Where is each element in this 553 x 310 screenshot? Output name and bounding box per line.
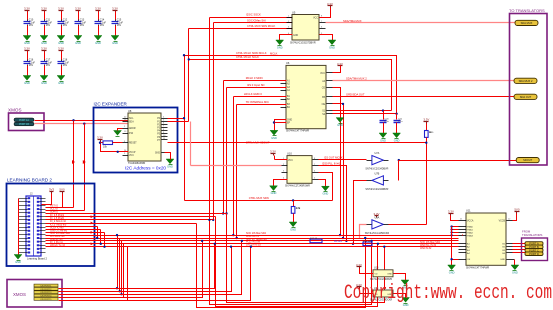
pin A3 of U6 <box>281 86 291 89</box>
svg-text:TMA1: TMA1 <box>467 229 474 232</box>
wire U6 to translator port 2 <box>333 80 515 82</box>
wire power to R15 <box>426 124 428 131</box>
svg-text:GND: GND <box>112 41 118 45</box>
svg-text:GND: GND <box>290 227 296 231</box>
svg-text:3.3V: 3.3V <box>24 46 30 50</box>
svg-text:SN74LVC2G34DBVR: SN74LVC2G34DBVR <box>365 188 388 191</box>
wire VCCA power <box>451 216 459 221</box>
ground for capacitor C13 <box>74 36 82 45</box>
IC U14 body <box>373 290 393 297</box>
ground at U5 pin5 <box>328 40 336 49</box>
svg-text:OE: OE <box>467 259 471 261</box>
resistor R16 4.7k <box>291 207 301 214</box>
pin A4 of U6 <box>322 80 332 83</box>
junction xmos 1 <box>214 243 216 245</box>
junction VCCP <box>117 151 119 153</box>
connector J2 center line <box>33 197 35 257</box>
wire MCLK 0 SDIN to U6 <box>224 80 287 82</box>
power flag for capacitor C18 3.3V <box>58 46 64 52</box>
power flag for U11 VCCA 3.3V <box>448 209 454 215</box>
resistor R15 1k <box>425 131 433 138</box>
wire U11 GND right <box>514 260 516 266</box>
connector J2 pin pair 6 <box>19 215 46 217</box>
junction CE bus <box>339 234 341 236</box>
ground for capacitor C15 <box>111 36 119 45</box>
wire to resistor R14 <box>101 142 104 144</box>
wire w5 route low <box>210 220 372 305</box>
junction bus1 <box>232 234 234 236</box>
svg-text:GND: GND <box>287 120 292 122</box>
svg-text:SDA MUX: SDA MUX <box>521 21 533 25</box>
wire U11 Y4 to port <box>513 252 526 254</box>
power flag for R15 3.3V <box>423 117 429 123</box>
svg-text:GND: GND <box>75 41 81 45</box>
junction w4 bus <box>377 243 379 245</box>
pin 5 of U10 <box>313 177 319 179</box>
XMOS bottom block border <box>7 280 62 308</box>
connector J2 body <box>26 196 41 256</box>
power flag for U6 3.3V <box>337 62 343 68</box>
wire I2S0 Input SD to U6 <box>227 87 287 89</box>
pin 4 of U5 <box>287 33 293 35</box>
wire IO_0.5 Pin19 <box>46 216 216 218</box>
pin VCC of U6 <box>320 73 332 75</box>
junction U7B bus <box>352 243 354 245</box>
svg-text:GND: GND <box>449 270 455 274</box>
wire U5 GND left <box>280 35 293 41</box>
wire TD INTERNAL MIC to U6 <box>237 104 287 106</box>
wire xmos I2S 3 <box>59 241 242 295</box>
power flag for U13 3.3V <box>356 263 362 269</box>
svg-text:U13: U13 <box>374 267 379 270</box>
resistor R14 10k <box>103 141 113 149</box>
svg-text:16V: 16V <box>46 64 51 67</box>
pin 22 SCL of U8 <box>123 116 135 120</box>
junction SCL <box>72 119 74 121</box>
pin 1 of U10 <box>282 158 288 160</box>
svg-text:GND: GND <box>58 81 64 85</box>
TO TRANSLATORS border <box>510 14 548 166</box>
svg-text:PORT 1A: PORT 1A <box>19 119 29 122</box>
connector J3 row 2 <box>34 287 58 290</box>
svg-text:Learning Board 2: Learning Board 2 <box>27 256 47 260</box>
junction riser x188 <box>188 58 190 60</box>
buffer U7B U7B <box>365 172 388 190</box>
junction bus drop a top <box>116 234 118 236</box>
svg-text:GND: GND <box>95 41 101 45</box>
wire bus drop a <box>117 236 119 289</box>
wire U6 OE down to bus <box>333 104 344 239</box>
connector J1 row 1 <box>14 118 34 122</box>
junction x184 <box>183 117 185 119</box>
pin 7 of U5 <box>320 21 326 23</box>
junction pullup <box>99 142 101 144</box>
ground for C20 <box>379 133 387 142</box>
wire U6 S2 to cap node <box>333 113 397 115</box>
pin 6 of U5 <box>320 27 326 29</box>
pin B3 of U6 <box>281 104 291 106</box>
svg-text:SDA: SDA <box>129 121 134 124</box>
svg-text:GND: GND <box>24 81 30 85</box>
wire SCL IO <box>46 210 85 212</box>
connector J1 row 2 <box>14 122 34 126</box>
pin EP of U6 <box>281 123 291 125</box>
svg-text:MCLK: MCLK <box>270 52 278 56</box>
power flag for U14 3.3V <box>356 283 362 289</box>
junction bus drop c bottom <box>120 293 122 295</box>
svg-text:16V: 16V <box>63 24 68 27</box>
svg-text:LRCLK GMD 0: LRCLK GMD 0 <box>244 92 262 96</box>
ground at U8 GND pin <box>166 159 174 168</box>
ground for U13 <box>401 280 409 289</box>
net flag arrow <box>91 242 94 245</box>
pin 13 P10 of U8 <box>123 131 134 135</box>
svg-text:VD: VD <box>375 274 378 276</box>
wire I2S OUT MCLK to U5 <box>210 17 293 19</box>
wire U10 down to bus <box>319 166 347 241</box>
power flag for reset pullup 3.3V <box>97 135 103 141</box>
ground for capacitor C14 <box>94 36 102 45</box>
capacitor C16 C16 <box>24 52 36 76</box>
wire U10 pin5 to ground <box>319 180 326 187</box>
IC U5 body <box>292 15 319 41</box>
pin B3 of U11 <box>459 249 471 252</box>
svg-text:SDA/TMA MUX 2: SDA/TMA MUX 2 <box>346 77 367 81</box>
junction U6 ground <box>273 121 275 123</box>
port SDA MUX <box>515 20 538 25</box>
junction U11 A3 <box>450 231 452 233</box>
connector J2 pin pair 9 <box>19 226 46 228</box>
pin S1 of U6 <box>322 111 332 113</box>
wire w9 jog <box>104 233 106 247</box>
wire riser x213 <box>213 23 215 220</box>
svg-text:GND: GND <box>500 259 505 261</box>
net flag marker on SCL <box>72 160 75 164</box>
IC U13 body <box>373 270 393 277</box>
junction cap C21 <box>395 113 397 115</box>
pin 3 of U10 <box>282 171 288 173</box>
wire xmos I2S 2 <box>59 247 232 292</box>
connector J2 pin pair 16 <box>19 252 46 254</box>
resistor R18 33 <box>363 242 372 246</box>
svg-text:GND: GND <box>24 41 30 45</box>
junction xmos 5 <box>250 246 252 248</box>
wire U10 VCC up <box>274 156 276 160</box>
I2C EXPANDER block border <box>94 108 178 173</box>
svg-text:GND: GND <box>380 138 386 142</box>
connector J2 pin pair 3 <box>19 204 46 206</box>
U11 GND pin right <box>500 259 514 261</box>
svg-text:GND: GND <box>394 138 400 142</box>
svg-text:SDOUT: SDOUT <box>523 158 532 162</box>
ground at U11 right <box>511 265 519 274</box>
svg-text:R18 33: R18 33 <box>363 241 371 243</box>
svg-text:GND: GND <box>387 274 392 276</box>
svg-text:VCC: VCC <box>288 160 293 162</box>
svg-text:3.3V: 3.3V <box>41 6 47 10</box>
wire riser x233 <box>233 97 235 236</box>
svg-text:VCCP: VCCP <box>129 152 136 154</box>
wire U7B output down to bus <box>354 181 367 244</box>
wire xmos I2S 1 <box>59 244 215 289</box>
svg-text:SN74LVC1G34DBVR: SN74LVC1G34DBVR <box>370 279 392 281</box>
junction bus2 <box>236 237 238 239</box>
ground at U6 right <box>336 118 344 127</box>
capacitor C12 C12 <box>58 12 70 36</box>
wire pullup to VCCP <box>101 142 129 152</box>
svg-text:MC AIN: MC AIN <box>334 240 342 243</box>
svg-text:GND: GND <box>58 41 64 45</box>
ground for R16 <box>289 222 297 231</box>
svg-text:LEARNING BOARD 2: LEARNING BOARD 2 <box>7 178 52 183</box>
ground for capacitor C10 <box>23 36 31 45</box>
wire U14 to ground <box>394 294 406 298</box>
svg-text:I2S OUT MCLK: I2S OUT MCLK <box>324 156 343 160</box>
wire J2 left common <box>18 199 20 255</box>
wire riser x236 <box>236 105 238 239</box>
power flag 5V0 learning board 5V0 <box>59 187 65 193</box>
svg-text:SN74AVC4T774PWR: SN74AVC4T774PWR <box>286 130 309 133</box>
ground for capacitor C12 <box>57 36 65 45</box>
svg-text:Copyright:www. eccn. com: Copyright:www. eccn. com <box>344 282 552 305</box>
port PORT A <box>525 242 543 246</box>
svg-text:CE: CE <box>322 87 326 89</box>
wire IO_1 Rx m1 <box>46 243 459 245</box>
junction xmos 2 <box>230 246 232 248</box>
pin P5 of U8 <box>157 132 167 136</box>
connector J2 pin pair 7 <box>19 219 46 221</box>
svg-text:16V: 16V <box>100 24 105 27</box>
connector J2 pin pair 15 <box>19 248 46 250</box>
svg-text:3.3V: 3.3V <box>112 6 118 10</box>
svg-text:EP: EP <box>287 123 291 125</box>
svg-text:16V: 16V <box>29 24 34 27</box>
svg-text:GND: GND <box>329 45 335 49</box>
power flag for capacitor C17 3.3V <box>41 46 47 52</box>
pin A4 of U11 <box>459 234 474 237</box>
junction w9 bus <box>103 246 105 248</box>
svg-text:3V3: 3V3 <box>49 187 55 191</box>
junction riser x184 <box>183 54 185 56</box>
svg-text:GND: GND <box>41 41 47 45</box>
ground for J2 <box>14 255 22 264</box>
connector J2 pin pair 8 <box>19 223 46 225</box>
connector J2 pin pair 2 <box>19 201 46 203</box>
svg-text:CTRL MUX SDN: CTRL MUX SDN <box>249 196 269 200</box>
net flag arrow <box>91 231 94 234</box>
wire SDA from XMOS to expander <box>35 123 129 125</box>
junction w3b <box>225 212 227 214</box>
junction xmos 3 <box>241 240 243 242</box>
wire U11 tie vertical <box>451 227 453 266</box>
wire w8 jog <box>100 230 102 244</box>
wire U6 CE down to bus <box>333 88 341 236</box>
svg-text:3.3V: 3.3V <box>423 117 429 121</box>
LEARNING BOARD 2 block border <box>7 184 95 267</box>
port SDA MUX 2 <box>514 78 537 83</box>
svg-text:16V: 16V <box>46 24 51 27</box>
junction xmos 4 <box>201 240 203 242</box>
IC U10 body <box>287 156 312 184</box>
wire w3 route low <box>227 214 385 303</box>
svg-text:SOC/CMas SAI: SOC/CMas SAI <box>247 19 266 23</box>
wire bus drop b <box>119 239 121 292</box>
svg-text:TRANSLATORS: TRANSLATORS <box>522 233 543 237</box>
junction cap C20 <box>382 109 384 111</box>
svg-text:I2S 0 Input SD: I2S 0 Input SD <box>247 83 265 87</box>
wire P1 to riser <box>168 121 189 123</box>
wire U13 to ground <box>394 274 406 281</box>
pin 4 of U10 <box>282 177 288 179</box>
svg-text:CTRL MCLK SDIN MCLK: CTRL MCLK SDIN MCLK <box>236 51 267 55</box>
IC U11 body <box>466 213 506 265</box>
wire IO_3 TMS0 m0 <box>46 226 98 228</box>
U11 VCCB pin <box>499 219 513 223</box>
wire 5V0 to J2 <box>46 194 63 208</box>
svg-text:3.3V: 3.3V <box>58 46 64 50</box>
power flag for U5 3.3V <box>327 2 333 8</box>
svg-text:U7A: U7A <box>374 152 379 155</box>
wire U8 ADDR to ground <box>118 129 123 131</box>
power flag for U10 3.3V <box>270 150 276 156</box>
wire U10 to U7A input <box>319 159 367 161</box>
wire I2S0 Rx m0 <box>46 240 459 242</box>
wire 3V3 to J2 <box>42 194 52 205</box>
svg-text:SN74AVC2T245RSWR: SN74AVC2T245RSWR <box>285 185 310 188</box>
svg-text:3.3V: 3.3V <box>41 46 47 50</box>
svg-text:I2C Address = 0x20: I2C Address = 0x20 <box>125 166 166 171</box>
wire IO_1.5 Pin20 <box>46 219 214 221</box>
wire CTRL MUX SDOUT <box>168 142 427 144</box>
capacitor C21 <box>394 114 404 134</box>
pin P6 of U8 <box>157 135 167 139</box>
ground for capacitor C11 <box>40 36 48 45</box>
junction w8 bus <box>100 243 102 245</box>
svg-text:SN74LVC1G3157DBVR: SN74LVC1G3157DBVR <box>290 42 316 45</box>
power flag for capacitor C14 3.3V <box>95 6 101 12</box>
junction bus drop b bottom <box>119 290 121 292</box>
pin 5 of U5 <box>320 33 326 35</box>
wire U5 out to translator port <box>326 22 516 24</box>
svg-text:VCC: VCC <box>313 17 318 19</box>
wire power to U13 <box>360 269 374 274</box>
wire LRCLK GMD to U6 <box>234 96 287 98</box>
svg-text:SDA/TMA MUX: SDA/TMA MUX <box>343 19 362 23</box>
connector J3 row 3 <box>34 291 58 294</box>
svg-text:U6: U6 <box>286 61 290 65</box>
svg-text:GND: GND <box>167 164 173 168</box>
connector J3 row 1 <box>34 284 58 287</box>
svg-text:GND: GND <box>41 81 47 85</box>
svg-text:TMA2: TMA2 <box>467 231 474 234</box>
svg-text:PORT D: PORT D <box>529 252 539 256</box>
connector J2 pin pair 11 <box>19 233 46 235</box>
junction pulldown R16 <box>292 199 294 201</box>
connector J2 pin pair 12 <box>19 237 46 239</box>
pin A4 of U6 <box>281 89 291 92</box>
port PORT C <box>525 248 543 252</box>
wire U6 S1 to cap node <box>333 110 392 112</box>
wire U6 to translator port 3 <box>333 96 515 98</box>
capacitor C11 C11 <box>41 12 53 36</box>
wire CTRL MCLK SCLK run <box>189 60 392 111</box>
FROM TRANSLATORS border <box>522 238 548 261</box>
svg-text:U11: U11 <box>466 209 471 213</box>
wire U11 A4 <box>452 235 459 237</box>
wire SDA down to learning board <box>84 124 86 211</box>
U11 OE pin <box>459 259 471 261</box>
wire U7A output down to U7B <box>398 161 400 181</box>
junction w3 bus <box>383 246 385 248</box>
junction w5 <box>212 219 214 221</box>
wire R16 to ground <box>293 214 295 223</box>
junction U11 OE <box>450 258 452 260</box>
wire U11 A2 <box>452 229 459 231</box>
pin 6 of U10 <box>313 171 319 173</box>
wire RST IO <box>46 207 74 209</box>
svg-text:TMA3: TMA3 <box>467 234 474 237</box>
pin P3 of U8 <box>157 126 167 130</box>
wire riser x226 <box>226 88 228 214</box>
svg-text:SDA OUT: SDA OUT <box>520 95 532 99</box>
svg-text:GND: GND <box>15 260 21 264</box>
wire resistor to RESET pin <box>113 142 123 144</box>
wire LRCLK Tx m0 <box>46 246 459 248</box>
pin 2 of U5 <box>287 21 293 23</box>
wire riser x190 lower <box>190 122 192 166</box>
resistor R17 33 <box>310 239 322 243</box>
pin 8 of U5 <box>320 16 326 18</box>
wire to R16 <box>293 201 295 207</box>
svg-text:RESET: RESET <box>129 143 137 145</box>
pin 24 VCCP of U8 <box>123 150 136 154</box>
capacitor C15 C15 <box>112 12 124 36</box>
wire I2S0 LT1 Rx m0 <box>46 232 105 234</box>
wire riser x188 <box>188 29 190 122</box>
connector J2 pin pair 4 <box>19 208 46 210</box>
wire U11 A1 <box>452 226 459 228</box>
wire U11 Y2 to port <box>513 246 526 248</box>
wire w6 route low <box>197 224 366 308</box>
wire SCL from XMOS to expander <box>35 120 129 122</box>
svg-text:ADDR: ADDR <box>129 127 136 130</box>
junction w7 bus <box>96 237 98 239</box>
ground for U14 <box>402 298 410 307</box>
svg-text:U7B: U7B <box>374 172 379 175</box>
junction U11 A1 <box>450 225 452 227</box>
svg-text:U8: U8 <box>128 109 132 113</box>
svg-text:LR5 LA IN SD: LR5 LA IN SD <box>246 244 261 247</box>
svg-text:CTRL MUX SDOUT: CTRL MUX SDOUT <box>246 140 270 144</box>
pin P7 of U8 <box>157 138 167 142</box>
junction U10 bus <box>345 240 347 242</box>
pin GND of U8 <box>155 153 169 155</box>
wire CTRL MCLK SDIN run <box>185 56 397 114</box>
svg-text:3.3V: 3.3V <box>97 135 103 139</box>
svg-text:3.3V: 3.3V <box>24 6 30 10</box>
buffer U7A U7A <box>365 152 388 170</box>
capacitor C18 C18 <box>58 52 70 76</box>
svg-text:GND: GND <box>323 192 329 196</box>
pin GND of U6 <box>281 120 293 122</box>
wire SDA IO <box>46 213 227 215</box>
pin B2 of U11 <box>459 246 471 249</box>
wire net y200 <box>185 200 333 202</box>
pin B4 of U6 <box>281 107 291 109</box>
svg-text:I2C EXPANDER: I2C EXPANDER <box>94 102 128 107</box>
ground for capacitor C18 <box>57 76 65 85</box>
wire stub <box>332 113 334 115</box>
